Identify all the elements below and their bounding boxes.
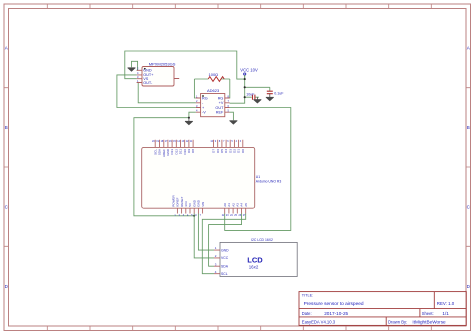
svg-text:Arduino UNO R3: Arduino UNO R3 (256, 180, 282, 184)
svg-text:A: A (467, 46, 470, 51)
sensor pins GND OUT+ VS OUT- (137, 70, 180, 82)
border tick marks top and bottom (47, 4, 431, 331)
sensor pin names (143, 69, 154, 85)
wire AD623 REF to ground (230, 112, 234, 120)
title block frame (299, 292, 466, 326)
svg-text:-V: -V (202, 111, 206, 115)
wire VCC rail down with branches (230, 79, 270, 103)
svg-text:VIN: VIN (201, 202, 205, 207)
svg-text:SDA: SDA (221, 265, 229, 269)
svg-text:D8: D8 (191, 149, 195, 153)
svg-text:16x2: 16x2 (249, 265, 259, 270)
svg-text:VCC: VCC (221, 256, 229, 260)
wire VCC net: sensor VS up over top rail to VCC junction (125, 51, 245, 79)
Arduino UNO R3 U3 body (142, 147, 255, 208)
svg-text:OUT-: OUT- (143, 81, 153, 85)
capacitor C2 0.1uF (267, 91, 273, 94)
AD623 pins left RG -IN +IN -VS (196, 98, 201, 112)
wire 5V pin to LCD VCC (194, 214, 214, 258)
Arduino top-right pin numbers (210, 140, 241, 143)
svg-text:TITLE:: TITLE: (302, 294, 313, 298)
Arduino top-left pin numbers (152, 140, 193, 143)
wire sensor GND pin loop to ground (132, 61, 138, 70)
capacitor C1 10uF (253, 95, 255, 100)
wire A4 to LCD SDA (209, 214, 242, 267)
Arduino bottom-right pins A0-A5 (225, 208, 246, 213)
svg-text:A5: A5 (244, 203, 248, 207)
Arduino bottom-left pin numbers (174, 214, 201, 217)
Arduino bottom-left POWER pins IOREF RESET 3V3 5V GND GND VIN (177, 208, 202, 213)
svg-text:10uF: 10uF (246, 93, 255, 97)
svg-text:OUT: OUT (215, 106, 224, 110)
wire AD623 -V to gnd and down to GND rail (134, 112, 196, 216)
Arduino bottom-right pin names rotated (223, 203, 248, 207)
svg-text:RG: RG (218, 96, 224, 100)
svg-text:A: A (5, 46, 8, 51)
ground symbol at AD623 REF (230, 121, 238, 124)
LCD module body (220, 242, 297, 276)
svg-text:+V: +V (219, 101, 224, 105)
svg-text:VCC 10V: VCC 10V (240, 68, 258, 73)
VCC 10V power flag (240, 68, 258, 80)
ground symbol at C2 (266, 94, 274, 101)
svg-text:I2C LCD 16X2: I2C LCD 16X2 (251, 238, 273, 242)
ground symbol at AD623 -V (185, 118, 193, 125)
svg-text:100Ω: 100Ω (209, 72, 219, 77)
svg-text:REF: REF (216, 111, 224, 115)
svg-text:U1: U1 (256, 175, 260, 179)
svg-text:ItMightBeWorse: ItMightBeWorse (412, 320, 446, 325)
AD623 pins right RG +VS OUT REF (225, 98, 230, 112)
border tick marks left and right (4, 88, 471, 247)
svg-text:2017-10-25: 2017-10-25 (324, 311, 348, 316)
junction node -V gnd (188, 117, 190, 119)
svg-text:GND: GND (221, 248, 229, 252)
wire OUT- net: sensor OUT- to AD623 -IN (137, 83, 196, 103)
svg-text:LCD: LCD (247, 256, 263, 265)
Arduino bottom-left pin names rotated (176, 197, 205, 207)
border zone letters A-D left side (5, 46, 9, 290)
op-amp U1 AD623 body (201, 94, 225, 117)
svg-text:Date:: Date: (302, 311, 312, 316)
resistor R1 100R body (208, 77, 224, 82)
wire AD623 OUT loop to Arduino A0 (225, 108, 291, 231)
svg-text:B: B (5, 125, 8, 130)
svg-text:B: B (467, 125, 470, 130)
AD623 pin names (202, 96, 224, 114)
sensor U2 MPXM2053GS (142, 67, 174, 87)
AD623 pin numbers (196, 94, 230, 112)
junction node cap 0.1uF branch (244, 86, 246, 88)
wire OUT+ net: sensor OUT+ to AD623 +IN (117, 75, 196, 108)
LCD pins GND VCC SDA SCL (214, 250, 220, 274)
LCD pin names (221, 248, 229, 276)
svg-text:RG: RG (202, 96, 208, 100)
svg-text:REV: 1.0: REV: 1.0 (437, 301, 455, 306)
svg-text:Drawn By:: Drawn By: (388, 320, 407, 325)
wire A5 to LCD SCL (202, 214, 245, 274)
junction node VCC flag (244, 78, 246, 80)
svg-text:AD623: AD623 (207, 88, 220, 93)
Arduino designator text (256, 175, 282, 183)
svg-text:MPXM2053GS: MPXM2053GS (149, 62, 176, 67)
border zone letters A-D right side (467, 46, 471, 290)
svg-text:Pressure sensor to airspeed: Pressure sensor to airspeed (304, 301, 364, 307)
junction node cap 10uF branch (244, 96, 246, 98)
ground symbol at sensor (128, 68, 136, 71)
Arduino top-right pin names rotated (212, 149, 245, 153)
junction node GND rail at pin (193, 215, 195, 217)
ground symbol at C1 (254, 97, 262, 103)
svg-text:1/1: 1/1 (442, 311, 449, 316)
resistor R1 100R leads (194, 79, 229, 98)
sensor pin numbers (137, 67, 139, 83)
Arduino top-left pins SCL SDA AREF GND D13-D8 (155, 140, 193, 148)
Arduino bottom-right pin numbers (222, 214, 246, 217)
wire GND pin to LCD GND (198, 214, 214, 251)
svg-text:EasyEDA V4.10.3: EasyEDA V4.10.3 (302, 320, 336, 325)
Arduino top-left pin names rotated (153, 148, 195, 157)
Arduino top-right pins D7-D0 (214, 140, 243, 148)
svg-text:SCL: SCL (221, 272, 228, 276)
svg-text:Sheet:: Sheet: (422, 311, 434, 316)
svg-text:D0: D0 (241, 149, 245, 153)
LCD pin numbers (215, 246, 217, 274)
svg-text:GND: GND (143, 69, 152, 73)
svg-text:0.1uF: 0.1uF (274, 91, 284, 95)
